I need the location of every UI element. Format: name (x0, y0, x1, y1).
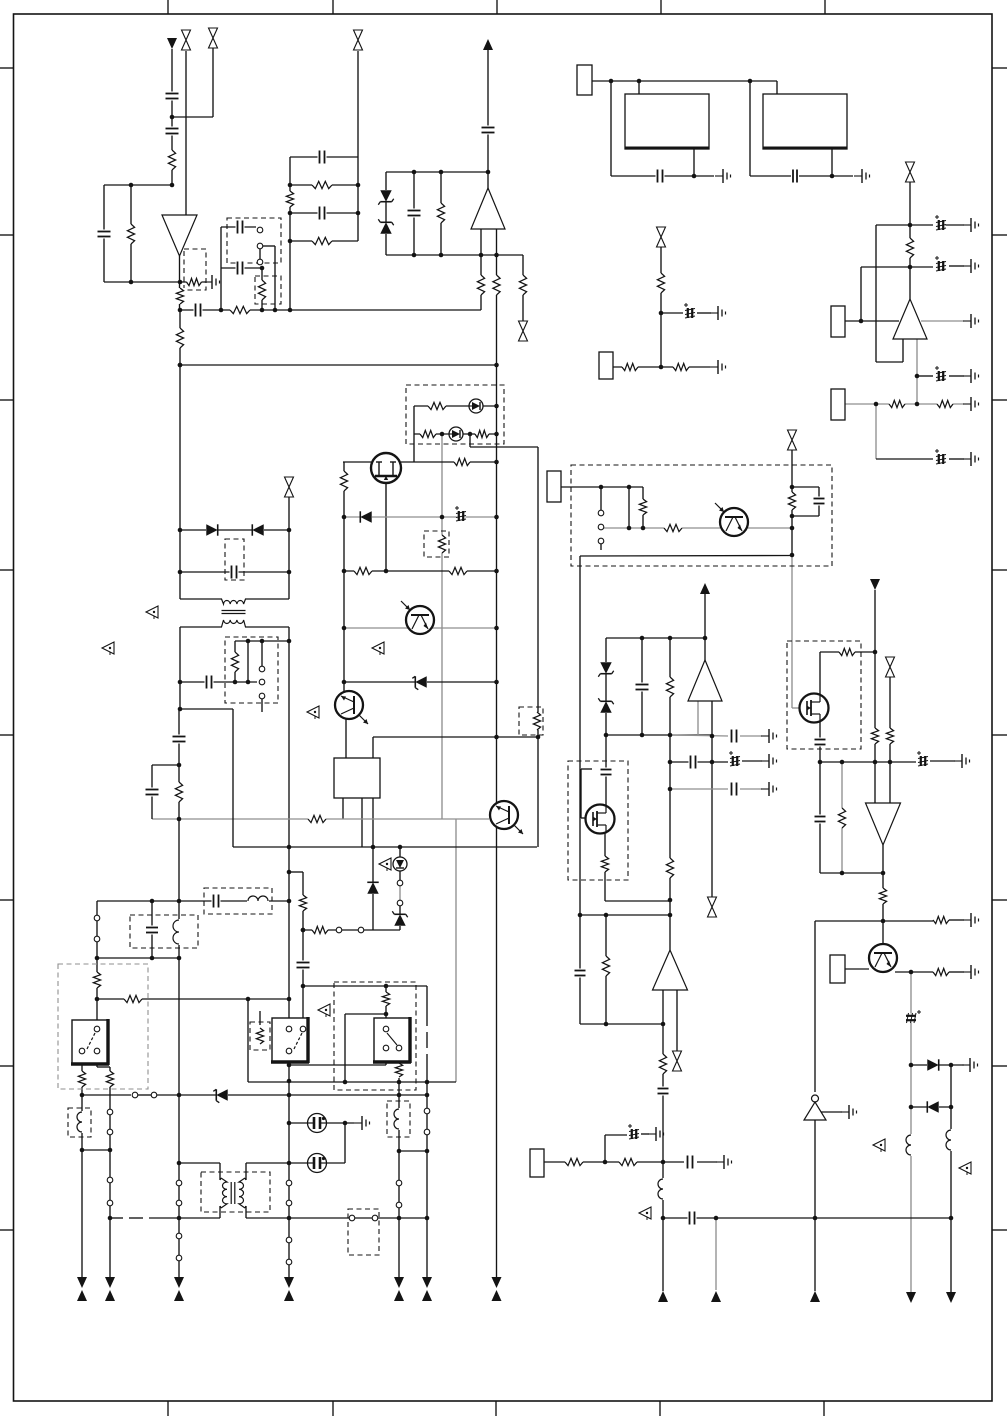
ground (963, 218, 979, 232)
wire row185 (290, 184, 358, 186)
wire (355, 1217, 372, 1219)
wire (398, 1208, 400, 1277)
dashed box enclosure (334, 982, 416, 1090)
wire (220, 227, 222, 310)
transformer T2 (221, 1178, 245, 1208)
wire (104, 184, 172, 186)
junction (287, 870, 292, 875)
wire (274, 246, 276, 310)
junction (246, 997, 251, 1002)
wire row213 (290, 212, 358, 214)
wire (949, 265, 964, 267)
connector mark down (105, 1277, 115, 1288)
wire (259, 249, 261, 265)
junction (273, 308, 278, 313)
frame tick left (0, 899, 14, 901)
pin (598, 538, 604, 544)
capacitor C35 (296, 961, 311, 970)
wire x180 (179, 627, 181, 709)
wire x456 gray (455, 819, 457, 1082)
ground (710, 306, 726, 320)
wire row901 (97, 900, 289, 902)
resistor R41 (665, 677, 675, 697)
pin (107, 1177, 113, 1183)
wire x538 rail (537, 447, 539, 847)
transistor Q3 (715, 503, 748, 536)
junction (599, 485, 604, 490)
diode D10 (927, 1101, 939, 1113)
pin (259, 666, 265, 672)
op-amp U6 (653, 950, 688, 990)
junction (748, 79, 753, 84)
frame tick top (660, 0, 662, 14)
wire M3 gate2 (580, 769, 582, 818)
wire x248 (247, 999, 249, 1082)
wire row241 (290, 240, 358, 242)
wire (605, 915, 607, 1024)
wire M3 gate3 (581, 768, 592, 770)
junction (233, 680, 238, 685)
junction (603, 1160, 608, 1165)
resistor R31 (638, 499, 648, 515)
wire row1135 (605, 1134, 627, 1136)
ground (963, 965, 979, 979)
wire (221, 226, 256, 228)
wire opamp5 lead2 (711, 701, 713, 897)
relay lever (387, 1033, 397, 1045)
junction (342, 515, 347, 520)
wire x951 (950, 1065, 952, 1292)
block module (577, 65, 592, 95)
wire gate R (401, 461, 497, 463)
junction (343, 1080, 348, 1085)
pin (176, 1180, 182, 1186)
wire (949, 971, 964, 973)
capacitor C34 (145, 926, 159, 935)
logic inverter (804, 1095, 826, 1120)
wire row762 (820, 761, 890, 763)
wire row1107 (911, 1106, 951, 1108)
resistor R32 (664, 523, 682, 533)
wire (604, 1135, 606, 1162)
junction (710, 760, 715, 765)
resistor R43 (600, 856, 610, 872)
junction (129, 183, 134, 188)
wire (138, 1094, 151, 1096)
wire (178, 1261, 180, 1277)
junction (578, 913, 583, 918)
pin (132, 1092, 138, 1098)
op-amp U1 (162, 215, 197, 256)
wire (697, 1161, 717, 1163)
wire (245, 1163, 247, 1180)
junction (915, 402, 920, 407)
dashed box (227, 218, 281, 263)
resistor R29 (449, 566, 467, 576)
wire (261, 268, 263, 310)
capacitor C31 (172, 735, 187, 744)
resistor R49 (92, 972, 102, 988)
wire stub (259, 1011, 261, 1025)
wire (399, 886, 401, 900)
wire (247, 641, 249, 682)
wire row958 (97, 957, 179, 959)
resistor R27 (437, 535, 447, 553)
wire (776, 81, 778, 94)
wire row737 (373, 736, 538, 738)
junction (287, 1093, 292, 1098)
relay switch K1 (71, 1019, 109, 1065)
resistor R14 (518, 275, 528, 295)
capacitor C24 (814, 815, 827, 824)
capacitor C9 (481, 126, 496, 135)
transistor Q6 (401, 601, 434, 634)
wire rc bot (792, 515, 819, 517)
wire gate L (343, 461, 371, 463)
wire (245, 1206, 247, 1218)
transistor Q5 (490, 801, 523, 834)
ground (963, 397, 979, 411)
connector mark down (946, 1292, 956, 1303)
capacitor C29 (574, 969, 587, 978)
frame tick left (0, 399, 14, 401)
frame tick left (0, 734, 14, 736)
junction (287, 1063, 292, 1068)
block module (625, 94, 709, 149)
wire x233 (232, 709, 234, 847)
wire (860, 267, 862, 321)
junction (108, 1216, 113, 1221)
resistor R52 (105, 1071, 115, 1087)
junction (219, 308, 224, 313)
off-page connector (672, 1051, 683, 1072)
wire (600, 487, 602, 510)
resistor R10 (312, 236, 332, 246)
block module (763, 94, 847, 149)
inductor L1 (905, 1134, 917, 1156)
wire (440, 172, 442, 255)
junction (888, 760, 893, 765)
capacitor C6 (236, 261, 245, 276)
wire V4 drop (704, 594, 706, 660)
junction (881, 871, 886, 876)
wire (385, 172, 387, 255)
wire (178, 1186, 180, 1200)
off-page connector (181, 30, 192, 51)
wire (130, 185, 132, 282)
junction (356, 211, 361, 216)
capacitor C37 (688, 1211, 697, 1226)
ground (841, 1105, 857, 1119)
wire relayA b1 (81, 1051, 83, 1095)
wire xfmr bot L (180, 626, 222, 628)
capacitor C2 (165, 127, 180, 136)
resistor R30 (532, 712, 542, 730)
resistor R9 (285, 191, 295, 207)
resistor R53 (298, 895, 308, 911)
wire (157, 1094, 427, 1096)
dashed box (225, 539, 244, 580)
junction (661, 1216, 666, 1221)
wire x344 rail (343, 462, 345, 692)
wire relayC b2 (398, 1048, 400, 1064)
junction (287, 1216, 292, 1221)
wire (261, 641, 263, 666)
off-page connector (353, 30, 364, 51)
inductor L7 (393, 1108, 405, 1130)
ground (963, 259, 979, 273)
polarity marker (639, 1207, 651, 1220)
polarity marker (959, 1162, 971, 1175)
wire M3 gate (581, 817, 586, 819)
wire (178, 1206, 180, 1233)
wire x179 rail (178, 709, 180, 1180)
wire row628 (344, 627, 497, 629)
wire row847 (233, 846, 537, 848)
relay switch K3 (373, 1017, 411, 1063)
junction (439, 253, 444, 258)
wire row1151 (399, 1150, 427, 1152)
wire (742, 760, 762, 762)
junction (398, 845, 403, 850)
resistor R20 (673, 362, 689, 372)
connector mark down (174, 1277, 184, 1288)
pin (176, 1233, 182, 1239)
wire zener chain (605, 638, 607, 735)
pin (598, 510, 604, 516)
dashed box (201, 1172, 270, 1212)
capacitor C26 (635, 683, 650, 692)
wire M3 source (604, 833, 606, 901)
dashed box (225, 637, 278, 703)
pin (286, 1026, 292, 1032)
wire (610, 81, 612, 176)
wire gate (792, 707, 800, 709)
indicator E2 (308, 1154, 327, 1173)
dashed box (130, 915, 198, 948)
dashed box (250, 1022, 270, 1050)
junction (425, 1149, 430, 1154)
wire xfmr bot R (245, 626, 289, 628)
ground (710, 360, 726, 374)
wire (97, 1066, 110, 1068)
resistor R18 (656, 273, 666, 293)
wire Q2-box (345, 719, 347, 758)
frame tick right (992, 399, 1007, 401)
dashed box (348, 1209, 379, 1255)
pin (397, 880, 403, 886)
junction (494, 735, 499, 740)
pin (151, 1092, 157, 1098)
wire row367 (613, 366, 710, 368)
wire (641, 1133, 649, 1135)
op-amp U5 (688, 660, 722, 701)
resistor R48 (174, 782, 184, 802)
wire M2 drain (819, 652, 821, 694)
resistor R51 (77, 1071, 87, 1087)
polarity marker (102, 642, 114, 655)
wire (149, 1217, 220, 1219)
connector mark up (711, 1291, 721, 1302)
pin (424, 1108, 430, 1114)
wire row986 (303, 985, 427, 987)
resistor R39 (933, 915, 949, 925)
ground (354, 1116, 370, 1130)
capacitor C5 (236, 220, 245, 235)
junction (287, 1161, 292, 1166)
junction (287, 845, 292, 850)
wire (740, 788, 762, 790)
resistor R55 (381, 992, 391, 1006)
connector mark up (105, 1290, 115, 1301)
frame tick right (992, 1229, 1007, 1231)
wire row930a (303, 929, 336, 931)
wire (426, 1114, 428, 1129)
junction (287, 1121, 292, 1126)
wire x345 (344, 1123, 346, 1163)
resistor R25 (454, 457, 470, 467)
wire row1123 (289, 1122, 354, 1124)
polarity marker (372, 642, 384, 655)
capacitor C8 (318, 206, 327, 221)
dashed box (387, 1101, 410, 1137)
pin (79, 1048, 85, 1054)
junction (949, 1216, 954, 1221)
dashed box (424, 531, 449, 557)
pin (94, 936, 100, 942)
wire row900 (605, 900, 670, 902)
wire (949, 375, 964, 377)
ground (954, 754, 970, 768)
pin (286, 1259, 292, 1265)
wire row1218 R (663, 1217, 951, 1219)
junction (177, 763, 182, 768)
wire (109, 1067, 111, 1109)
connector mark down (492, 1277, 502, 1288)
pin (397, 900, 403, 906)
pin (300, 1026, 306, 1032)
resistor R33 (787, 492, 797, 510)
wire (875, 404, 877, 459)
wire row530 (180, 529, 289, 531)
junction (703, 636, 708, 641)
junction (659, 311, 664, 316)
diode D4 (252, 524, 264, 536)
wire V3 drop (874, 590, 876, 803)
wire output (916, 339, 918, 404)
connector mark up (77, 1290, 87, 1301)
ground (854, 169, 870, 183)
mosfet Q7 (800, 694, 829, 723)
inductor L5 (173, 919, 185, 945)
wire row1218 M (246, 1217, 349, 1219)
inductor L2 (945, 1129, 957, 1151)
wire (288, 1265, 290, 1277)
power arrow down (870, 579, 880, 590)
wire (288, 497, 290, 530)
wire (469, 434, 471, 447)
wire (642, 487, 644, 528)
junction (288, 308, 293, 313)
pin (336, 927, 342, 933)
wire row1163 ext (289, 1162, 345, 1164)
junction (494, 569, 499, 574)
wire (663, 1161, 684, 1163)
frame tick left (0, 569, 14, 571)
junction (640, 636, 645, 641)
wire row376 (917, 375, 933, 377)
junction (668, 898, 673, 903)
wire (246, 1162, 289, 1164)
wire (876, 361, 903, 363)
wire (669, 638, 671, 735)
resistor R19 (622, 362, 638, 372)
wire (413, 172, 415, 255)
zener diode D16 (213, 1089, 228, 1103)
junction (425, 1080, 430, 1085)
wire (831, 149, 833, 176)
wire row638 (606, 637, 705, 639)
wire row652 (820, 651, 875, 653)
pin (383, 1026, 389, 1032)
capacitor C32 (145, 788, 160, 797)
junction (637, 79, 642, 84)
capacitor C1 (165, 92, 180, 101)
frame tick bottom (823, 1401, 825, 1416)
wire row1065 (289, 1064, 386, 1066)
ground (963, 913, 979, 927)
wire (129, 1217, 143, 1219)
transistor Q4 (869, 944, 897, 972)
junction (790, 553, 795, 558)
wire (949, 919, 964, 921)
wire row1014 (345, 1013, 386, 1015)
junction (661, 1022, 666, 1027)
wire opamp6 lead1 (662, 990, 664, 1291)
junction (641, 526, 646, 531)
polarized capacitor C16 (935, 449, 946, 465)
junction (178, 363, 183, 368)
wire row267 (861, 266, 933, 268)
frame tick bottom (167, 1401, 169, 1416)
wire x792 gray (791, 555, 793, 708)
junction (668, 787, 673, 792)
wire inv gnd (821, 1111, 842, 1113)
wire input (845, 320, 899, 322)
junction (178, 363, 183, 368)
wire (426, 1135, 428, 1277)
junction (494, 432, 499, 437)
wire row736a (670, 735, 728, 736)
connector mark down (906, 1292, 916, 1303)
wire (832, 175, 853, 177)
wire (219, 1206, 221, 1218)
diode D3 (206, 524, 218, 536)
pin (372, 1215, 378, 1221)
resistor R1 (167, 150, 177, 170)
resistor R56 (565, 1157, 583, 1167)
junction (668, 760, 673, 765)
capacitor C10 (407, 209, 422, 218)
resistor R36 (870, 728, 880, 744)
inductor L4 (247, 895, 269, 907)
capacitor C33 (212, 894, 221, 909)
junction (287, 528, 292, 533)
junction (342, 626, 347, 631)
junction (343, 1121, 348, 1126)
resistor R42 (665, 858, 675, 878)
wire (592, 80, 777, 82)
